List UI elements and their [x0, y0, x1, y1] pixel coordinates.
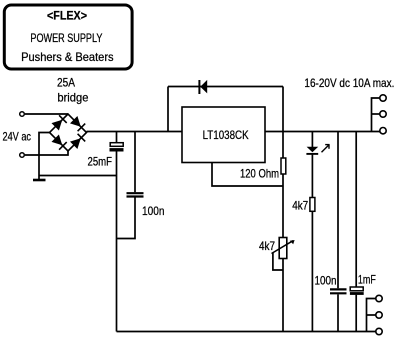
terminal OUT+ 2: [380, 111, 386, 117]
svg-text:1mF: 1mF: [358, 273, 376, 287]
capacitor 100n (output): [330, 289, 347, 293]
svg-text:Pushers & Beaters: Pushers & Beaters: [21, 50, 114, 64]
svg-text:25A: 25A: [57, 76, 75, 90]
wire protection diode rail: [168, 86, 283, 88]
protection diode: [199, 80, 207, 94]
wire C2 bottom bend to ground line: [117, 198, 136, 239]
bridge diode bottom-right: [70, 134, 85, 149]
wire C1 top stem: [116, 132, 118, 143]
terminal OUT+ 3: [380, 128, 386, 134]
terminal OUT- 1: [376, 295, 382, 301]
wire AC1 to bridge top: [25, 113, 68, 115]
wire diode rail drop to output: [282, 87, 284, 133]
svg-text:16-20V dc 10A max.: 16-20V dc 10A max.: [304, 76, 394, 90]
wire C2 branch top: [134, 132, 136, 192]
ground: [33, 179, 46, 182]
wire riser to protection diode: [167, 87, 169, 133]
svg-text:<FLEX>: <FLEX>: [47, 9, 87, 23]
wire pot wiper short: [273, 253, 283, 270]
wire bottom rail: [117, 331, 377, 333]
wire ADJ pin: [212, 163, 283, 187]
wire C4 bottom: [355, 295, 357, 332]
wire LED to R 4k7: [311, 154, 313, 197]
terminal AC1: [20, 112, 25, 117]
wire R 4k7 bottom to bottom rail: [311, 212, 313, 332]
wire main positive rail: [87, 131, 381, 133]
svg-text:100n: 100n: [142, 204, 165, 218]
wire C4 branch top: [355, 132, 357, 288]
wire top terminal stub 2: [372, 113, 381, 115]
resistor 120 Ohm: [281, 158, 286, 174]
potentiometer 4k7: [272, 238, 295, 259]
svg-text:25mF: 25mF: [88, 155, 113, 169]
svg-text:24V ac: 24V ac: [3, 130, 32, 144]
capacitor 25mF: [110, 143, 124, 152]
wire bridge left vertex to ground drop: [39, 133, 50, 180]
svg-text:LT1038CK: LT1038CK: [203, 128, 249, 142]
wire bottom terminal stub 2: [367, 314, 377, 316]
svg-text:120 Ohm: 120 Ohm: [240, 167, 279, 181]
terminal OUT- 2: [376, 312, 382, 318]
capacitor 100n (input): [127, 193, 144, 196]
wire C1 bottom to bottom rail: [116, 152, 118, 332]
wire 120 Ohm branch top: [282, 132, 284, 158]
svg-text:4k7: 4k7: [292, 199, 308, 213]
wire bottom terminal bus: [367, 299, 377, 332]
wire LED branch top: [311, 132, 313, 148]
wire pot bottom to bottom rail: [282, 259, 284, 332]
bridge diode top-right: [70, 116, 85, 131]
wire ground rail to C1 bottom: [39, 175, 117, 177]
terminal OUT- 3: [376, 328, 382, 334]
terminal OUT+ 1: [380, 95, 386, 101]
wire top terminal bus: [372, 98, 381, 132]
capacitor 1mF: [350, 287, 364, 295]
title box: [4, 5, 132, 69]
svg-text:POWER SUPPLY: POWER SUPPLY: [30, 31, 102, 45]
svg-text:4k7: 4k7: [259, 239, 275, 253]
svg-text:bridge: bridge: [57, 91, 88, 105]
svg-text:100n: 100n: [315, 274, 337, 288]
wire C3 bottom: [337, 294, 339, 331]
LED: [306, 144, 329, 154]
bridge diode top-left: [52, 115, 67, 130]
bridge diode bottom-left: [52, 135, 67, 150]
bridge rectifier frame: [50, 114, 87, 151]
wire C3 branch top: [337, 132, 339, 288]
resistor 4k7: [310, 198, 315, 212]
wire 120 Ohm bottom to pot: [282, 174, 284, 238]
regulator U1 LT1038CK: [182, 107, 265, 163]
wire AC2 to bridge bottom: [25, 150, 68, 155]
terminal AC2: [20, 153, 25, 158]
